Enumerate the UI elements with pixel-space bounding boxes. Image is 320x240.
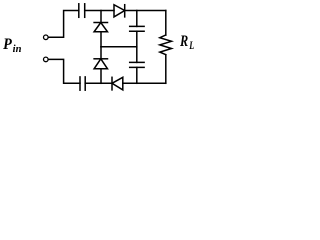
wire (D1 anode to middle rail) — [100, 32, 102, 47]
diode D1 (upper shunt, pointing up) — [94, 23, 107, 32]
wire (D2 cathode along top rail to right column) — [125, 10, 166, 12]
wire (right column down to resistor) — [165, 11, 167, 36]
label RL (load resistor) — [179, 33, 194, 52]
wire (top rail junction down to C3) — [136, 11, 138, 27]
wire (node A down to D1 cathode) — [100, 11, 102, 23]
wire (middle rail) — [101, 46, 137, 48]
wire (middle rail down to D3 cathode) — [100, 47, 102, 59]
resistor RL (zigzag) — [160, 35, 172, 55]
diode D3 (lower shunt, pointing up) — [94, 59, 107, 69]
capacitor C1 (top series) — [79, 4, 85, 17]
diode D2 (top series, pointing right) — [114, 5, 125, 17]
capacitor C4 (lower shunt) — [130, 62, 144, 67]
wire (D3 anode to bottom rail) — [100, 69, 102, 84]
wire (bottom rail middle segment through node C) — [85, 82, 112, 84]
wire (bottom input terminal to bottom rail) — [48, 59, 80, 83]
terminal (input bottom, open circle) — [44, 57, 49, 62]
svg-text:L: L — [188, 40, 194, 52]
wire (C4 to bottom rail) — [136, 67, 138, 83]
capacitor C3 (upper shunt) — [130, 26, 144, 31]
wire (C1 to node A and D2 anode) — [85, 10, 114, 12]
wire (C3 through middle rail to C4) — [136, 31, 138, 62]
capacitor C2 (bottom series) — [80, 77, 85, 90]
terminal (input top, open circle) — [44, 35, 49, 40]
svg-text:in: in — [13, 44, 22, 55]
svg-text:P: P — [2, 35, 12, 53]
wire (top input terminal to top rail) — [48, 11, 78, 38]
label Pin (input power) — [2, 35, 21, 55]
wire (bottom rail right segment) — [123, 82, 166, 84]
wire (resistor to bottom rail) — [165, 55, 167, 84]
svg-text:R: R — [179, 33, 188, 50]
diode D4 (bottom rail, pointing left) — [112, 77, 123, 90]
